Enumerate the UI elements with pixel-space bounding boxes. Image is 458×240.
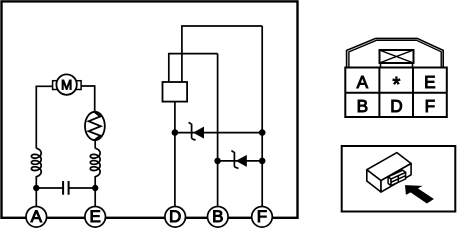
node F rail / lower row [259, 158, 266, 165]
wire upper diode row [175, 132, 262, 134]
svg-text:E: E [424, 72, 435, 92]
terminal A [26, 207, 47, 228]
inductor L2 [90, 148, 100, 176]
motor U1 brushes [53, 81, 58, 90]
wire L2 to E [94, 176, 96, 207]
node B rail / lower row [214, 158, 221, 165]
terminal B [208, 207, 229, 228]
capacitor C1 [63, 181, 69, 195]
node F rail / upper row [259, 129, 266, 136]
wire L1 top to motor [36, 86, 52, 148]
svg-text:B: B [357, 96, 368, 116]
svg-text:D: D [390, 96, 402, 116]
node on E branch [92, 185, 98, 191]
wire lower diode row [218, 160, 263, 162]
capacitor C1 wires [36, 187, 95, 189]
wire B rail [217, 54, 219, 207]
terminal E [85, 207, 106, 228]
svg-text:F: F [425, 96, 436, 116]
wire R2 right stub to F rail [182, 26, 262, 82]
module connector [388, 170, 406, 185]
resistor R1 (in ellipse) [85, 112, 105, 140]
connector keyway box [380, 50, 414, 67]
terminal D [165, 207, 186, 228]
svg-text:F: F [257, 207, 267, 226]
svg-text:A: A [31, 207, 43, 226]
inductor L1 [31, 148, 41, 176]
motor U1 [56, 74, 76, 94]
connector housing outer roof [347, 38, 444, 67]
zener diode D2 [231, 151, 246, 169]
wire R2 left stub to B rail [169, 54, 218, 82]
node on A branch [33, 185, 39, 191]
svg-text:E: E [90, 207, 101, 226]
wire A vertical [35, 176, 37, 207]
svg-text:*: * [393, 74, 401, 96]
location box [342, 146, 456, 212]
zener diode D1 [189, 122, 204, 140]
node D rail / upper row [172, 129, 179, 136]
connector housing inner roof [349, 40, 441, 67]
wire F rail [261, 26, 263, 207]
svg-text:M: M [61, 77, 72, 92]
wire D rail [174, 102, 176, 207]
wire resistor to L2 [94, 140, 96, 149]
pin grid [345, 68, 447, 118]
terminal F [252, 207, 273, 228]
module body (3D box) [367, 153, 411, 192]
circuit box [2, 1, 298, 217]
svg-text:B: B [212, 207, 223, 226]
pointer arrow [405, 185, 434, 203]
svg-text:A: A [357, 72, 369, 92]
wire motor right to resistor [81, 86, 95, 112]
svg-text:D: D [169, 207, 181, 226]
resistor block R2 [163, 82, 188, 102]
